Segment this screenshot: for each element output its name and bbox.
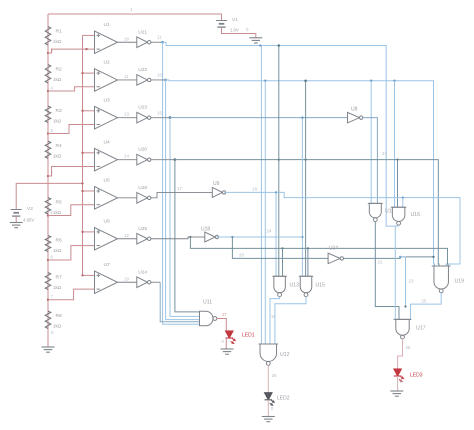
svg-text:13: 13	[124, 112, 129, 117]
wire net 22 branch to dark node	[400, 257, 406, 308]
svg-text:U22: U22	[138, 67, 147, 73]
ground under V2	[10, 223, 23, 228]
inverter U21	[137, 29, 151, 47]
wire net 11 row1	[151, 35, 399, 227]
op-amp U1	[95, 22, 118, 54]
LED2	[265, 393, 290, 406]
resistor R4	[45, 141, 62, 159]
svg-text:1kΩ: 1kΩ	[53, 39, 62, 44]
op-amp U7	[95, 262, 118, 294]
wire U2 plus stub	[81, 72, 94, 74]
battery V2	[11, 206, 35, 223]
wire net 25 U19 out	[411, 293, 442, 320]
wire U7 output	[118, 281, 137, 283]
svg-text:11: 11	[157, 35, 162, 40]
svg-text:U4: U4	[104, 139, 111, 145]
svg-text:1kΩ: 1kΩ	[53, 119, 62, 124]
wire V2 to ground	[15, 217, 17, 223]
node ladder tap 2	[47, 86, 54, 93]
wire net 15 row3	[151, 111, 348, 120]
wire tap6 to U6 minus	[48, 246, 95, 260]
wire U8 out to U10	[363, 118, 378, 204]
wire V2 to bus	[16, 182, 83, 209]
wire U5 plus stub	[81, 190, 94, 192]
wire tap1 to U1 minus	[48, 49, 95, 53]
wire U6 plus stub	[81, 231, 94, 233]
wire U15 out to U12	[275, 297, 306, 344]
node net 0 label bottom	[51, 330, 54, 335]
svg-text:15: 15	[157, 111, 162, 116]
wire LED2 to ground	[268, 400, 274, 417]
svg-text:1kΩ: 1kΩ	[53, 248, 62, 253]
wire net 26 U17 out	[398, 339, 411, 369]
node U1 minus junction	[85, 48, 87, 50]
wire row2 drop to U16	[394, 81, 396, 208]
svg-text:12: 12	[124, 233, 129, 238]
node ladder tap 3	[47, 128, 54, 135]
wire row1 drop to U12	[260, 46, 262, 345]
svg-text:U12: U12	[280, 352, 290, 358]
svg-text:1kΩ: 1kΩ	[53, 285, 62, 290]
svg-text:U23: U23	[138, 105, 147, 111]
svg-text:U24: U24	[138, 269, 147, 275]
svg-text:U6: U6	[104, 219, 111, 225]
wire net 20 U18 out	[216, 229, 302, 239]
ground ladder bottom	[42, 344, 55, 352]
wire tap4 to U4 minus	[48, 167, 95, 177]
wire U13 out to U12	[270, 297, 280, 344]
nand-gate U13	[272, 276, 299, 296]
wire row6 drop to U13	[282, 248, 284, 276]
wire row2-row4 chain to U15	[304, 79, 307, 276]
wire U6 output	[118, 238, 137, 240]
resistor R5	[45, 198, 62, 216]
wire U10 out down	[375, 222, 399, 320]
wire U4 output	[118, 159, 137, 161]
resistor R3	[45, 106, 62, 124]
svg-text:LED2: LED2	[277, 396, 290, 402]
svg-text:R3: R3	[56, 108, 63, 114]
ground top right	[249, 38, 262, 43]
inverter U14	[328, 246, 343, 264]
wire U2 output	[118, 79, 137, 81]
svg-text:U19: U19	[455, 279, 465, 285]
svg-text:1kΩ: 1kΩ	[53, 154, 62, 159]
svg-text:U2: U2	[104, 60, 111, 66]
wire net 17 row5	[151, 186, 212, 198]
svg-text:23: 23	[409, 279, 414, 284]
node net 12 label	[124, 233, 129, 238]
svg-text:10: 10	[157, 73, 162, 78]
svg-text:LED1: LED1	[242, 333, 255, 339]
node ladder tap 4	[47, 171, 54, 178]
ground under LED1	[221, 349, 234, 354]
wire row2 drop to U12	[264, 81, 266, 344]
wire row2 drop to U11	[166, 80, 200, 320]
resistor R7	[45, 273, 62, 291]
svg-text:14: 14	[124, 154, 129, 159]
wire U5 output	[118, 197, 137, 199]
wire net 23 U16 out	[395, 225, 414, 319]
inverter U8	[348, 107, 363, 123]
svg-text:R2: R2	[56, 67, 63, 73]
svg-text:U20: U20	[138, 147, 147, 153]
wire net 27 U11 out	[217, 312, 228, 331]
wire net 1 top rail	[48, 14, 222, 21]
op-amp U4	[95, 139, 118, 171]
nand-gate U19	[432, 266, 464, 293]
svg-text:U9: U9	[213, 181, 220, 187]
wire LED3 to ground	[398, 376, 403, 391]
svg-text:1: 1	[130, 7, 133, 12]
svg-text:U5: U5	[104, 178, 111, 184]
svg-text:R1: R1	[56, 29, 63, 35]
wire row7 drop to U11	[160, 282, 199, 322]
inverter U9	[212, 181, 226, 197]
svg-text:18: 18	[252, 187, 257, 192]
wire row1 drop to U11	[163, 42, 200, 324]
wire ladder	[47, 14, 49, 344]
inverter U28	[137, 185, 151, 203]
wire U4 plus stub	[81, 152, 94, 154]
wire tap2 to U2 minus	[48, 87, 95, 91]
svg-text:26: 26	[406, 345, 411, 350]
svg-text:U1: U1	[104, 22, 111, 28]
wire row6 dark branch	[190, 237, 448, 266]
wire tap7 to U7 minus	[48, 289, 95, 300]
node net 1 label	[130, 7, 133, 12]
wire row6 drop to U15	[307, 248, 309, 276]
node ladder tap 1	[47, 48, 54, 55]
op-amp U6	[95, 219, 118, 251]
svg-text:U18: U18	[201, 227, 210, 233]
svg-text:1kΩ: 1kΩ	[53, 324, 62, 329]
op-amp U5	[95, 178, 118, 210]
wire Vin bus	[82, 35, 84, 275]
svg-text:U17: U17	[416, 326, 426, 332]
nand-gate U10	[368, 203, 395, 221]
wire U7 plus stub	[81, 274, 94, 276]
wire row5 drop to U13	[275, 192, 277, 276]
svg-text:19: 19	[124, 276, 129, 281]
svg-text:U15: U15	[316, 283, 326, 289]
wire row1-row4 chain to U13	[278, 44, 281, 276]
LED1	[226, 331, 255, 344]
wire tap5 to U5 minus	[48, 205, 95, 216]
wire net 18 row5 out	[224, 187, 460, 267]
svg-text:11: 11	[124, 74, 129, 79]
wire LED1 to ground	[222, 338, 227, 349]
svg-text:27: 27	[222, 312, 227, 317]
svg-text:R8: R8	[56, 313, 63, 319]
resistor R6	[45, 236, 62, 254]
svg-text:20: 20	[239, 253, 244, 258]
resistor R8	[45, 311, 62, 329]
LED3	[394, 369, 423, 382]
nand-gate U17	[394, 319, 426, 339]
wire row3 chain to U15	[301, 116, 303, 276]
svg-text:19: 19	[271, 314, 276, 319]
wire U1 plus stub	[83, 34, 95, 36]
svg-text:24: 24	[267, 229, 272, 234]
svg-text:U28: U28	[138, 185, 147, 191]
svg-text:16: 16	[124, 36, 129, 41]
ground under LED2	[262, 417, 275, 422]
node net 16 label	[124, 36, 129, 41]
wire net 19 row7	[151, 281, 160, 283]
nand-gate U16	[391, 207, 420, 225]
svg-text:4.65V: 4.65V	[23, 218, 34, 223]
svg-text:U25: U25	[138, 226, 147, 232]
svg-text:R4: R4	[56, 143, 63, 149]
resistor R2	[45, 65, 62, 84]
node net 14 label	[124, 154, 129, 159]
wire net 26 U12 out	[268, 365, 277, 393]
svg-text:1kΩ: 1kΩ	[53, 77, 62, 82]
and-gate U11	[200, 300, 217, 326]
nand-gate U15	[299, 276, 325, 296]
svg-text:U14: U14	[329, 246, 338, 252]
wire row5 drop to U16	[402, 198, 404, 208]
battery V1	[216, 17, 239, 33]
wire net 12 row6	[151, 236, 192, 239]
inverter U23	[137, 105, 151, 123]
svg-text:R7: R7	[56, 275, 63, 281]
wire row2 drop to U10	[370, 81, 372, 204]
svg-text:LED3: LED3	[410, 373, 423, 379]
wire net 10 row2	[151, 73, 435, 267]
node net 11 label	[124, 74, 129, 79]
node ladder tap 5	[47, 210, 54, 217]
svg-text:U11: U11	[203, 300, 212, 306]
svg-text:17: 17	[177, 186, 182, 191]
svg-text:25: 25	[422, 299, 427, 304]
node ladder tap 6	[47, 255, 54, 262]
svg-text:U8: U8	[351, 107, 358, 113]
wire V1 to ground	[222, 28, 256, 38]
wire tap3 to U3 minus	[48, 125, 95, 134]
wire net 21 row4	[151, 151, 439, 266]
wire row3 drop to U11	[170, 118, 200, 317]
svg-text:R6: R6	[56, 238, 63, 244]
inverter U20	[137, 147, 151, 165]
svg-text:V2: V2	[27, 206, 33, 212]
wire row4 drop to U11	[175, 160, 200, 312]
svg-text:22: 22	[378, 260, 383, 265]
svg-text:U21: U21	[138, 29, 147, 35]
node net 13 label	[124, 112, 129, 117]
op-amp U3	[95, 97, 118, 128]
wire row4 drop to U16	[397, 160, 399, 208]
svg-text:1.0V: 1.0V	[230, 28, 239, 33]
svg-text:21: 21	[382, 151, 387, 156]
svg-text:26: 26	[272, 373, 277, 378]
inverter U25	[137, 226, 151, 244]
wire net 20 branch to U14	[232, 237, 328, 258]
wire U3 plus stub	[81, 110, 94, 112]
inverter U24	[137, 269, 151, 287]
inverter U18	[190, 227, 218, 243]
svg-text:U16: U16	[411, 212, 421, 218]
svg-text:U7: U7	[104, 262, 111, 268]
wire U3 output	[118, 117, 137, 119]
svg-text:U3: U3	[104, 97, 111, 103]
op-amp U2	[95, 60, 118, 91]
node net 19 label	[124, 276, 129, 281]
wire net 22 U14 out	[344, 256, 435, 265]
node ladder tap 7	[47, 294, 54, 301]
inverter U22	[137, 67, 151, 85]
svg-text:1kΩ: 1kΩ	[53, 210, 62, 215]
wire U1 output	[118, 41, 137, 43]
node net 0 label top	[246, 27, 249, 32]
svg-text:R5: R5	[56, 200, 63, 206]
svg-text:U13: U13	[290, 283, 300, 289]
nand-gate U12	[259, 344, 290, 365]
svg-text:V1: V1	[232, 17, 238, 22]
ground under LED3	[390, 391, 403, 396]
resistor R1	[45, 27, 62, 46]
